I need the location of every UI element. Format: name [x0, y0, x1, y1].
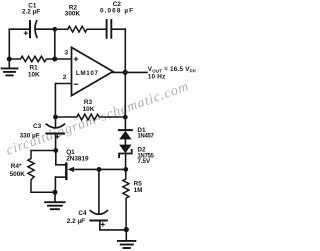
op-amp U1 LM107 [72, 47, 114, 95]
capacitor C2 [106, 20, 108, 38]
wire D2 to gate rail [125, 153, 127, 169]
svg-text:10K: 10K [28, 72, 40, 79]
svg-text:VOUT = 16.5 VPP: VOUT = 16.5 VPP [148, 66, 196, 73]
wire between D1 and D2 [124, 139, 126, 144]
node: junction C1/R2/pin3 rail [53, 27, 58, 32]
svg-text:2N3819: 2N3819 [66, 156, 89, 163]
wire: C1 left lead + left vertical down to R1 [9, 29, 28, 58]
resistor R3 [56, 114, 126, 120]
wire: vertical from C1 node down to R1 node [54, 29, 56, 59]
capacitor C3 [55, 117, 57, 127]
node: gate/diodes/R5 [123, 167, 128, 172]
diode D1 1N457 [124, 117, 126, 130]
node: pin3 junction [52, 57, 57, 62]
svg-text:10 Hz: 10 Hz [148, 74, 166, 81]
svg-text:2: 2 [63, 74, 67, 81]
transistor Q1 2N3819 [55, 151, 57, 165]
node: feedback right [123, 115, 128, 120]
label VOUT [148, 66, 196, 80]
node: R1 left / ground [7, 57, 12, 62]
node: feedback left [53, 115, 58, 120]
capacitor C4 [98, 169, 100, 213]
wire: op-amp output [113, 71, 147, 73]
wire: right rail output to R3 node [124, 72, 126, 117]
node: output [123, 70, 128, 75]
resistor R5 [123, 169, 129, 229]
wire: gate rail [74, 168, 126, 170]
resistor R1 [9, 56, 55, 62]
svg-text:1M: 1M [134, 187, 143, 194]
svg-text:330 µF: 330 µF [20, 133, 40, 140]
svg-text:C4: C4 [78, 210, 87, 217]
ground (right) [125, 230, 127, 240]
node: gate/C4 [97, 167, 102, 172]
wire: C3 bottom lead [55, 134, 57, 151]
wire: C4 bottom to ground rail [100, 221, 127, 230]
svg-text:circuitdiagram-schematic.com: circuitdiagram-schematic.com [4, 79, 191, 159]
diode D2 1N755 zener [119, 145, 131, 154]
node: bottom ground junction [124, 227, 129, 232]
svg-text:3: 3 [65, 50, 69, 57]
node: C3/R4/Q1-drain [53, 148, 58, 153]
svg-text:LM107: LM107 [76, 70, 99, 77]
ground (middle) [54, 192, 56, 201]
svg-text:7.5V: 7.5V [137, 158, 151, 165]
svg-text:10K: 10K [83, 106, 95, 113]
resistor R2 [57, 26, 106, 32]
capacitor C1 [29, 21, 31, 37]
ground (left) [8, 59, 10, 68]
minus input mark [74, 83, 77, 85]
svg-text:500K: 500K [10, 171, 26, 178]
node: source/R4/ground [53, 190, 58, 195]
plus input mark [74, 57, 77, 60]
svg-text:300K: 300K [65, 10, 81, 17]
C4 plus mark [101, 223, 104, 226]
Q1 gate arrow [68, 167, 74, 172]
svg-text:R4*: R4* [11, 163, 22, 170]
svg-text:C3: C3 [33, 123, 42, 130]
resistor R4 [28, 151, 56, 193]
wire: right rail top, corner down to output node [124, 29, 126, 72]
svg-text:R1: R1 [30, 65, 39, 72]
svg-text:2.2 µF: 2.2 µF [22, 9, 40, 16]
svg-text:2.2 µF: 2.2 µF [67, 218, 85, 225]
C1 plus mark [24, 32, 27, 35]
C3 plus mark [56, 135, 59, 138]
wire: pin 3 into op-amp [55, 58, 72, 60]
wire: pin 2 left and down to feedback node [55, 84, 71, 118]
svg-text:0.068 µF: 0.068 µF [100, 8, 134, 15]
svg-text:1N457: 1N457 [137, 134, 154, 140]
